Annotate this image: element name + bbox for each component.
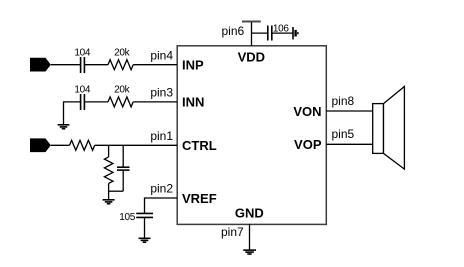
op-amp IC U1 (amplifier block) — [177, 46, 326, 225]
wire RC bottom connector — [109, 190, 124, 192]
svg-text:pin6: pin6 — [222, 24, 245, 38]
power symbol VDD rail bar — [242, 21, 261, 23]
input terminal (CTRL source tag) — [30, 138, 51, 152]
svg-text:INN: INN — [182, 95, 204, 110]
wire pin2 VREF to C4 — [145, 198, 178, 213]
wire R2 to pin3 INN — [133, 101, 177, 103]
resistor R3 (CTRL series) — [70, 140, 95, 150]
capacitor C3 (CTRL shunt, vertical) — [117, 167, 130, 170]
svg-text:VREF: VREF — [182, 191, 217, 206]
svg-text:pin2: pin2 — [150, 181, 173, 195]
svg-text:105: 105 — [119, 212, 136, 223]
wire VOP pin5 to speaker — [326, 143, 372, 145]
svg-text:104: 104 — [74, 47, 91, 58]
capacitor C4 105 (VREF bypass) — [136, 213, 153, 217]
resistor R2 20k — [108, 97, 133, 107]
svg-text:VDD: VDD — [238, 49, 265, 64]
svg-text:104: 104 — [74, 84, 91, 95]
wire tag to C1 — [51, 64, 80, 66]
wire C1 to R1 — [84, 64, 108, 66]
svg-text:pin3: pin3 — [150, 86, 173, 100]
speaker LS1 body — [373, 104, 384, 154]
svg-text:INP: INP — [182, 58, 204, 73]
svg-text:20k: 20k — [114, 47, 131, 58]
svg-text:20k: 20k — [114, 84, 131, 95]
svg-text:pin8: pin8 — [332, 94, 355, 108]
wire R1 to pin4 INP — [133, 64, 177, 66]
svg-text:CTRL: CTRL — [182, 138, 217, 153]
resistor R4 (CTRL shunt, vertical) — [104, 145, 113, 191]
wire ground up and right to C2 — [64, 102, 81, 125]
ground (VREF bypass) — [139, 238, 151, 242]
wire GND pin7 to ground — [249, 224, 251, 249]
svg-text:pin5: pin5 — [332, 127, 355, 141]
wire cap branch — [122, 145, 124, 191]
svg-text:GND: GND — [235, 205, 264, 220]
wire VDD branch to C5 — [252, 32, 268, 34]
svg-text:pin7: pin7 — [221, 225, 244, 239]
ground (CTRL RC network) — [103, 200, 115, 204]
speaker LS1 cone — [384, 87, 405, 170]
wire C5 to ground — [272, 32, 293, 34]
wire R3 to pin1 CTRL — [95, 144, 178, 146]
svg-text:VON: VON — [293, 104, 321, 119]
wire tag to R3 — [51, 144, 70, 146]
wire VON pin8 to speaker — [326, 110, 372, 112]
ground (VDD bypass, rotated) — [293, 27, 298, 39]
wire stem to ground — [108, 191, 110, 199]
wire C4 to ground — [144, 217, 146, 238]
capacitor C1 104 (INP coupling) — [81, 57, 85, 73]
svg-text:pin1: pin1 — [150, 129, 173, 143]
capacitor C5 106 (VDD bypass) — [268, 26, 272, 41]
svg-text:pin4: pin4 — [150, 49, 173, 63]
ground (GND pin7) — [243, 250, 256, 254]
wire C2 to R2 — [84, 101, 108, 103]
wire VDD pin6 riser — [251, 22, 253, 46]
capacitor C2 104 (INN coupling) — [81, 94, 85, 110]
resistor R1 20k — [108, 60, 133, 70]
ground (INN input) — [58, 125, 70, 129]
input terminal (INP source tag) — [30, 58, 51, 72]
svg-text:VOP: VOP — [294, 137, 322, 152]
